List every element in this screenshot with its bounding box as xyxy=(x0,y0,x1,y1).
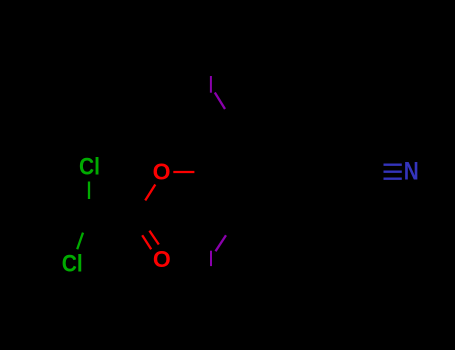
benzene ring C1'-C6' (dark skeleton) xyxy=(216,127,316,220)
bond ring C6' to iodine (bottom), dark half xyxy=(226,219,239,235)
bond carbonyl C1 to ester O, dark half xyxy=(135,201,145,217)
bond ester O to ring C1', red half xyxy=(173,171,194,173)
wire: ring C4' to nitrile carbon xyxy=(316,170,366,172)
wire: C2 to methyl C3 xyxy=(44,174,89,216)
C1=O double bond, red halves xyxy=(142,231,159,250)
nitrile C#N triple bond, carbon halves (dark) xyxy=(366,165,384,179)
nitrile C#N triple bond, nitrogen halves (blue) xyxy=(384,165,402,179)
iodine I (top) xyxy=(210,76,212,93)
bond carbonyl C1 to ester O, red half xyxy=(145,185,155,201)
aromatic inner double bonds xyxy=(224,132,309,211)
bond ring C2' to iodine (top), purple half xyxy=(215,93,225,110)
bond ring C6' to iodine (bottom), purple half xyxy=(216,235,227,251)
svg-text:N: N xyxy=(404,157,419,185)
svg-text:O: O xyxy=(153,246,171,272)
bond C2 to chlorine (bottom), green half xyxy=(77,233,83,250)
C1=O double bond, dark halves xyxy=(131,214,149,235)
svg-text:Cl: Cl xyxy=(62,251,83,278)
bond C2 to chlorine (top), green half xyxy=(88,182,90,200)
bond C2 to chlorine (top), dark half xyxy=(87,199,90,216)
svg-text:Cl: Cl xyxy=(79,154,100,181)
wire: C2 to carbonyl C1 xyxy=(89,215,136,218)
bond ring C2' to iodine (top), dark half xyxy=(225,109,239,127)
iodine I (bottom) xyxy=(210,251,212,266)
svg-text:O: O xyxy=(153,159,171,185)
bond C2 to chlorine (bottom), dark half xyxy=(83,216,89,233)
bond ester O to ring C1', dark half xyxy=(194,171,215,173)
